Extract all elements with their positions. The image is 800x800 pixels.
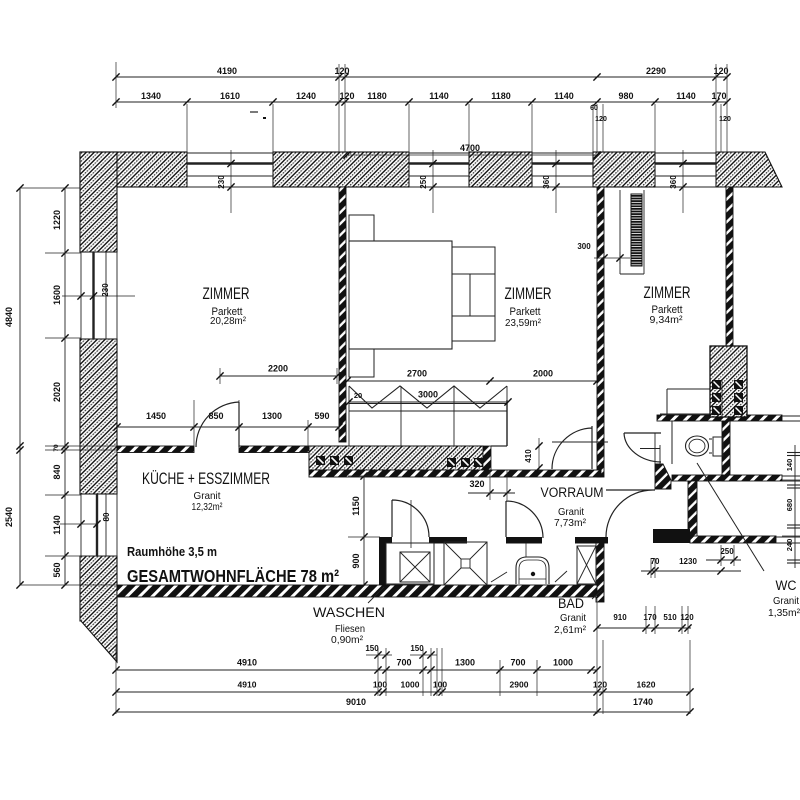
svg-text:1620: 1620 <box>637 680 656 690</box>
svg-text:910: 910 <box>613 613 627 622</box>
svg-text:Granit: Granit <box>560 612 586 624</box>
svg-text:700: 700 <box>510 658 525 668</box>
svg-text:1000: 1000 <box>553 658 573 668</box>
svg-text:2,61m²: 2,61m² <box>554 624 586 636</box>
svg-text:KÜCHE + ESSZIMMER: KÜCHE + ESSZIMMER <box>142 469 270 488</box>
svg-text:4910: 4910 <box>238 680 257 690</box>
svg-text:9,34m²: 9,34m² <box>650 314 683 326</box>
svg-text:WASCHEN: WASCHEN <box>313 605 385 620</box>
svg-text:VORRAUM: VORRAUM <box>541 485 604 500</box>
svg-text:100: 100 <box>433 680 447 690</box>
svg-text:560: 560 <box>52 562 62 577</box>
svg-text:1180: 1180 <box>367 91 387 101</box>
svg-text:4840: 4840 <box>4 307 14 327</box>
svg-text:1000: 1000 <box>401 680 420 690</box>
svg-text:120: 120 <box>680 613 694 622</box>
svg-text:1,35m²: 1,35m² <box>768 607 800 619</box>
svg-text:1600: 1600 <box>52 285 62 305</box>
svg-text:23,59m²: 23,59m² <box>505 317 541 329</box>
svg-text:0,90m²: 0,90m² <box>331 634 363 646</box>
svg-text:120: 120 <box>334 66 349 76</box>
svg-text:510: 510 <box>663 613 677 622</box>
svg-text:1240: 1240 <box>296 91 316 101</box>
svg-text:2540: 2540 <box>4 507 14 527</box>
svg-text:2290: 2290 <box>646 66 666 76</box>
svg-text:120: 120 <box>339 91 354 101</box>
svg-text:Raumhöhe 3,5 m: Raumhöhe 3,5 m <box>127 544 217 559</box>
svg-text:1150: 1150 <box>351 496 361 516</box>
svg-text:840: 840 <box>52 464 62 479</box>
svg-text:120: 120 <box>593 680 607 690</box>
svg-text:20: 20 <box>354 391 362 400</box>
svg-text:360: 360 <box>669 175 678 189</box>
svg-text:150: 150 <box>410 644 424 653</box>
svg-text:700: 700 <box>396 658 411 668</box>
svg-text:230: 230 <box>217 175 226 189</box>
svg-text:1450: 1450 <box>146 411 166 421</box>
svg-text:250: 250 <box>419 175 428 189</box>
svg-text:3000: 3000 <box>418 390 438 400</box>
svg-text:60: 60 <box>590 105 598 112</box>
svg-text:680: 680 <box>785 499 794 512</box>
svg-text:70: 70 <box>53 444 60 452</box>
svg-text:120: 120 <box>719 116 731 123</box>
svg-text:1140: 1140 <box>676 91 696 101</box>
svg-text:2000: 2000 <box>533 369 553 379</box>
svg-text:4190: 4190 <box>217 66 237 76</box>
svg-text:590: 590 <box>314 411 329 421</box>
svg-text:ZIMMER: ZIMMER <box>644 283 691 302</box>
svg-text:1140: 1140 <box>52 515 62 535</box>
svg-text:9010: 9010 <box>346 697 366 707</box>
svg-text:2900: 2900 <box>510 680 529 690</box>
svg-text:170: 170 <box>711 91 726 101</box>
svg-text:980: 980 <box>618 91 633 101</box>
svg-text:1140: 1140 <box>554 91 574 101</box>
svg-text:410: 410 <box>524 449 533 463</box>
svg-text:1740: 1740 <box>633 697 653 707</box>
svg-text:1220: 1220 <box>52 210 62 230</box>
svg-text:140: 140 <box>785 459 794 472</box>
svg-text:1300: 1300 <box>262 411 282 421</box>
svg-text:2020: 2020 <box>52 382 62 402</box>
svg-text:Granit: Granit <box>773 595 799 607</box>
svg-text:100: 100 <box>373 680 387 690</box>
svg-text:320: 320 <box>469 479 484 489</box>
svg-text:250: 250 <box>720 547 734 556</box>
svg-text:2700: 2700 <box>407 369 427 379</box>
svg-text:ZIMMER: ZIMMER <box>505 284 552 303</box>
svg-text:12,32m²: 12,32m² <box>192 501 223 513</box>
svg-text:7,73m²: 7,73m² <box>554 517 586 529</box>
svg-text:80: 80 <box>102 512 111 521</box>
svg-text:1300: 1300 <box>455 658 475 668</box>
svg-text:1340: 1340 <box>141 91 161 101</box>
svg-text:GESAMTWOHNFLÄCHE 78 m²: GESAMTWOHNFLÄCHE 78 m² <box>127 566 339 586</box>
svg-text:ZIMMER: ZIMMER <box>203 284 250 303</box>
svg-text:900: 900 <box>351 553 361 568</box>
svg-text:300: 300 <box>577 242 591 251</box>
svg-text:WC: WC <box>776 578 797 593</box>
svg-text:1230: 1230 <box>679 557 697 566</box>
svg-text:4910: 4910 <box>237 658 257 668</box>
svg-text:120: 120 <box>595 116 607 123</box>
svg-text:1140: 1140 <box>429 91 449 101</box>
svg-text:2200: 2200 <box>268 364 288 374</box>
svg-text:1180: 1180 <box>491 91 511 101</box>
svg-text:850: 850 <box>208 411 223 421</box>
svg-text:360: 360 <box>542 175 551 189</box>
svg-text:20,28m²: 20,28m² <box>210 315 246 327</box>
svg-text:4700: 4700 <box>460 143 480 153</box>
svg-text:1610: 1610 <box>220 91 240 101</box>
svg-text:150: 150 <box>365 644 379 653</box>
svg-text:230: 230 <box>101 283 110 297</box>
svg-text:240: 240 <box>785 539 794 552</box>
svg-text:BAD: BAD <box>558 596 584 611</box>
